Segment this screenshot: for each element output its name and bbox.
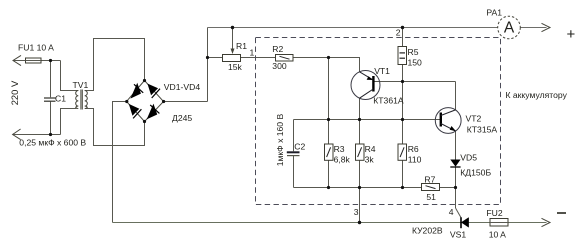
ARROWS (open) — [13, 23, 550, 226]
svg-text:VD1-VD4: VD1-VD4 — [164, 82, 201, 92]
arrow mains top left — [13, 55, 21, 65]
node dot bridge top — [143, 79, 146, 82]
svg-text:R1: R1 — [236, 41, 247, 51]
transistor VT1 — [351, 71, 380, 100]
svg-text:+: + — [567, 26, 576, 43]
bridge rectifier diamond VD1-VD4 — [127, 81, 164, 122]
wire VT2 collector riser — [455, 82, 457, 110]
capacitor C2 — [287, 151, 300, 153]
svg-text:FU1 10 A: FU1 10 A — [18, 43, 54, 53]
svg-text:C1: C1 — [55, 93, 66, 103]
arrow mains bottom left — [13, 129, 21, 140]
wire collector line — [294, 119, 441, 121]
wire right vertex to riser — [164, 101, 208, 103]
wire R1 wiper drop — [232, 28, 234, 53]
wire secondary top to bridge AC1 — [86, 39, 145, 91]
svg-text:КУ202В: КУ202В — [412, 225, 443, 235]
wire VS1 gate lead — [456, 208, 462, 218]
wire R1 left — [208, 57, 223, 59]
arrow minus output — [542, 218, 551, 226]
resistor R7 — [422, 184, 440, 191]
diode VD4 bottom-right — [148, 105, 160, 118]
capacitor C1 — [44, 98, 56, 101]
node dot R1 wiper rail — [231, 26, 234, 29]
svg-text:10 A: 10 A — [489, 230, 506, 240]
svg-text:6,8k: 6,8k — [334, 155, 351, 165]
svg-text:VT1: VT1 — [374, 66, 390, 76]
svg-text:51: 51 — [426, 192, 436, 202]
diode VD2 top-right — [148, 84, 160, 98]
svg-text:150: 150 — [408, 58, 423, 68]
minus terminal — [557, 212, 566, 214]
wire R3 bottom lead — [328, 160, 330, 187]
svg-text:R2: R2 — [272, 44, 283, 54]
svg-text:R5: R5 — [408, 47, 419, 57]
wire VT1 collector drop — [359, 98, 361, 119]
resistor R1 — [223, 55, 241, 62]
wire R6 bottom lead — [402, 160, 404, 187]
wire primary top — [61, 61, 77, 91]
diode VD5 — [450, 160, 460, 167]
wire R4 bottom lead to node 3 — [359, 160, 361, 222]
ammeter PA1 — [498, 16, 521, 39]
wire R7 right lead — [440, 187, 456, 189]
transistor VT2 — [435, 108, 461, 134]
svg-text:R6: R6 — [408, 144, 419, 154]
node dot R2 out — [327, 56, 330, 59]
wire C1 top lead — [50, 61, 52, 98]
node dot R5 base line — [401, 80, 404, 83]
svg-text:3k: 3k — [365, 155, 375, 165]
svg-text:КТ361А: КТ361А — [373, 95, 404, 105]
wire primary bottom — [61, 109, 77, 135]
node dot common R3 — [327, 186, 330, 189]
svg-text:2: 2 — [396, 27, 401, 37]
svg-text:C2: C2 — [294, 142, 305, 152]
resistor R4 — [356, 144, 365, 160]
diode VD1 top-left — [131, 84, 143, 97]
wire bottom rail minus — [113, 222, 547, 224]
wire C1 bottom lead — [50, 102, 52, 135]
wire R4 top lead — [359, 120, 361, 145]
node dot collector line R6 — [401, 118, 404, 121]
resistor R3 — [325, 144, 334, 160]
wire C2 bottom lead — [293, 156, 295, 188]
svg-text:1: 1 — [250, 48, 255, 58]
wire R2 node down to collector line — [328, 58, 330, 120]
svg-text:R3: R3 — [334, 144, 345, 154]
fuse FU1 — [26, 58, 42, 63]
node dot C1 top — [49, 59, 52, 62]
svg-text:VT2: VT2 — [466, 114, 482, 124]
node dot bridge bottom — [143, 120, 146, 123]
wire top rail plus — [208, 27, 547, 29]
node dot collector line R3 — [327, 118, 330, 121]
svg-text:1мкФ х 160 В: 1мкФ х 160 В — [275, 114, 285, 167]
node dot bridge right — [162, 100, 165, 103]
node dot bridge left — [125, 100, 128, 103]
wire bridge plus riser — [207, 28, 209, 102]
wire VT2 emitter to VD5 — [455, 131, 457, 160]
DASHED BOX control module — [256, 38, 501, 205]
wire R1 to R2 node 1 — [241, 57, 276, 59]
wire R5 bottom through base line to R6 — [402, 65, 404, 145]
svg-text:КД150Б: КД150Б — [460, 168, 491, 178]
fuse FU2 — [490, 219, 508, 227]
svg-text:VD5: VD5 — [460, 153, 477, 163]
resistor R6 — [398, 144, 407, 160]
svg-text:FU2: FU2 — [486, 208, 502, 218]
node dot C1 bottom — [49, 133, 52, 136]
svg-text:110: 110 — [408, 155, 422, 165]
wire R3 top lead — [328, 120, 330, 145]
svg-text:КТ315А: КТ315А — [467, 125, 498, 135]
node dot riser R1 — [206, 56, 209, 59]
wire R5 top lead — [402, 28, 404, 47]
node dot common R6 — [401, 186, 404, 189]
svg-text:220 V: 220 V — [9, 80, 20, 105]
svg-text:PA1: PA1 — [486, 8, 502, 18]
wire secondary bottom to bridge AC2 — [86, 109, 145, 146]
svg-text:4: 4 — [449, 207, 454, 217]
svg-text:R7: R7 — [424, 175, 435, 185]
wire mains line bottom — [13, 134, 61, 136]
diode VD3 bottom-left — [130, 105, 142, 119]
transformer TV1 — [76, 90, 88, 110]
wire inner common line — [294, 187, 422, 189]
svg-text:15k: 15k — [228, 62, 243, 72]
node dot R7 VD5 — [454, 186, 457, 189]
node dot 2 rail R5 — [401, 26, 404, 29]
node dot collector line R4 — [358, 118, 361, 121]
svg-text:R4: R4 — [365, 144, 376, 154]
resistor R2 — [276, 55, 294, 62]
svg-text:TV1: TV1 — [73, 80, 89, 90]
svg-text:VS1: VS1 — [450, 229, 466, 239]
node dot common R4 — [358, 186, 361, 189]
svg-text:0,25 мкФ x 600 В: 0,25 мкФ x 600 В — [19, 137, 86, 147]
wire C2 top lead — [293, 120, 295, 152]
svg-text:Д245: Д245 — [172, 113, 192, 123]
svg-text:300: 300 — [272, 61, 287, 71]
wire bridge minus to bottom rail — [113, 102, 127, 223]
R1 wiper arrowhead — [231, 49, 235, 55]
wire VD5 cathode to gate — [455, 167, 457, 208]
wire R2 to VT1 emitter — [293, 58, 360, 72]
svg-text:A: A — [504, 20, 515, 37]
wire mains line top — [13, 60, 61, 62]
thyristor VS1 — [461, 218, 468, 228]
svg-text:3: 3 — [354, 207, 359, 217]
wire VT1 base line — [375, 81, 456, 83]
arrow plus output — [542, 23, 551, 31]
resistor R5 — [398, 47, 407, 65]
node dot 3 rail — [358, 221, 361, 224]
svg-text:К аккумулятору: К аккумулятору — [506, 90, 568, 100]
